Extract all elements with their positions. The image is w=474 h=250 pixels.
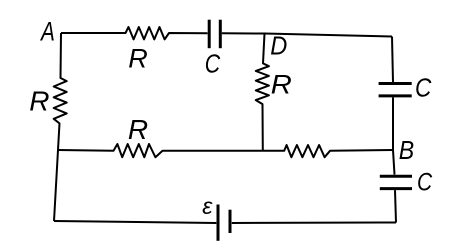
svg-text:R: R [128, 114, 148, 145]
svg-text:R: R [29, 86, 49, 117]
svg-text:C: C [205, 49, 221, 79]
svg-text:A: A [39, 17, 55, 47]
svg-text:B: B [399, 137, 414, 166]
svg-text:C: C [417, 168, 432, 196]
svg-text:C: C [415, 74, 432, 103]
svg-text:ε: ε [202, 193, 213, 219]
svg-text:D: D [270, 32, 287, 60]
svg-text:R: R [128, 44, 148, 74]
svg-text:R: R [271, 69, 292, 99]
